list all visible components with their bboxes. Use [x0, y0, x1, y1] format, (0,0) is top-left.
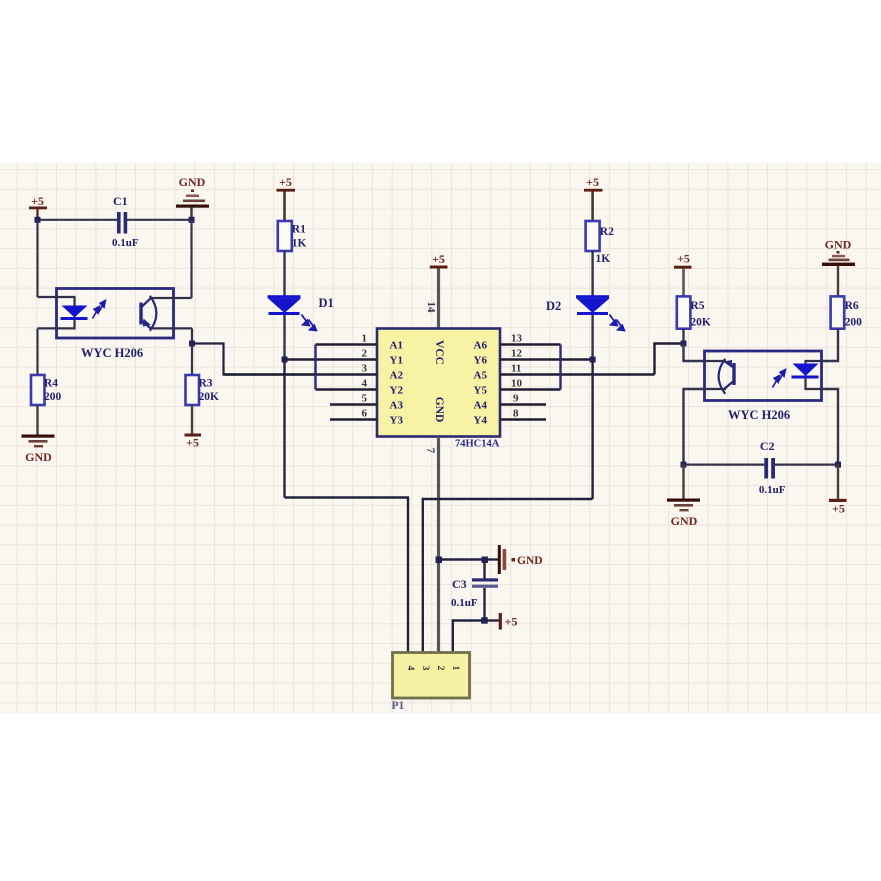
node junction C3 bottom — [481, 617, 488, 624]
svg-text:GND: GND — [671, 514, 698, 528]
optocoupler U-right WYC H206 box — [705, 351, 822, 422]
svg-text:VCC: VCC — [433, 340, 445, 365]
svg-text:10: 10 — [511, 378, 523, 390]
power +5 (below R3) — [185, 405, 202, 450]
svg-text:+5: +5 — [586, 175, 599, 189]
ground GND (bottom left) — [22, 435, 55, 465]
IC left pin stubs 1-4 — [224, 345, 378, 390]
resistor R1 — [278, 221, 307, 251]
svg-text:1: 1 — [362, 333, 368, 345]
svg-text:+5: +5 — [186, 436, 199, 450]
node junction D2/pin12 — [590, 357, 596, 363]
ground GND (top right, inverted stack) — [822, 238, 855, 297]
wire IC GND pin 7 down to P1 — [437, 437, 440, 653]
svg-text:4: 4 — [362, 378, 368, 390]
svg-text:GND: GND — [179, 175, 206, 189]
wire opto1 output to IC pin3 — [192, 344, 316, 375]
wire R5 to node — [682, 329, 684, 344]
svg-text:A1: A1 — [390, 340, 403, 352]
phototransistor inside opto2 — [719, 359, 736, 394]
power +5 (above R2) — [584, 175, 603, 221]
svg-text:11: 11 — [511, 363, 521, 375]
svg-text:20K: 20K — [690, 317, 711, 329]
wire opto2 transistor bottom pin — [705, 388, 727, 390]
resistor R3 — [186, 345, 220, 405]
power +5 (above R1) — [277, 175, 296, 221]
capacitor C1 — [112, 194, 139, 249]
resistor R2 — [586, 221, 615, 265]
LED inside opto1 — [61, 306, 88, 321]
wire pin11 to right opto input — [655, 344, 684, 375]
wire R2 to D2 — [591, 251, 593, 296]
svg-text:8: 8 — [513, 408, 519, 420]
svg-text:Y1: Y1 — [390, 355, 403, 367]
wire C3 row horizontal — [439, 558, 485, 560]
resistor R4 — [31, 375, 62, 405]
node junction C2 right — [835, 462, 841, 468]
svg-text:0.1uF: 0.1uF — [112, 237, 139, 249]
D2 light arrows — [610, 315, 625, 331]
wire down to +5 bottom — [837, 465, 839, 499]
IC right pin numbers — [511, 333, 523, 420]
wire left vertical to R4 — [36, 328, 38, 375]
ground GND (top left, inverted stack) — [176, 175, 209, 220]
node junction C3 top — [482, 557, 489, 564]
ground GND (middle, sideways) — [498, 545, 543, 574]
node junction C2 left — [681, 462, 687, 468]
power +5 (left, above C1 row) — [29, 194, 47, 220]
svg-text:GND: GND — [825, 238, 852, 252]
IC left bracket pins 1-4 — [314, 345, 316, 390]
wire bottom left horizontal to P1 — [285, 498, 409, 653]
svg-text:+5: +5 — [31, 194, 44, 208]
optocoupler U-left WYC H206 box — [57, 289, 174, 361]
IC right pin stubs 13-10 — [500, 345, 655, 390]
svg-text:5: 5 — [362, 393, 368, 405]
svg-text:C2: C2 — [760, 439, 775, 453]
capacitor C2 — [684, 439, 839, 496]
opto1 light arrows — [93, 301, 106, 319]
svg-text:9: 9 — [513, 393, 519, 405]
svg-text:R4: R4 — [44, 378, 58, 390]
wire node into opto2 transistor top — [684, 344, 705, 362]
svg-text:+5: +5 — [832, 502, 845, 516]
svg-text:12: 12 — [511, 348, 523, 360]
svg-text:2: 2 — [435, 666, 445, 671]
wire +5 branch down to P1 pin1 — [453, 621, 485, 653]
svg-text:0.1uF: 0.1uF — [759, 484, 786, 496]
P1 pin labels (rotated) — [405, 666, 460, 671]
svg-text:R3: R3 — [199, 378, 213, 390]
schematic background — [0, 163, 881, 713]
wire D1 node down to bottom row — [283, 360, 285, 498]
wire to GND mid — [485, 558, 499, 560]
LED inside opto2 — [792, 361, 822, 389]
node junction opto1 output — [189, 341, 195, 347]
svg-text:1K: 1K — [596, 253, 611, 265]
svg-text:WYC H206: WYC H206 — [81, 346, 143, 360]
svg-text:13: 13 — [511, 333, 523, 345]
svg-text:Y6: Y6 — [474, 355, 488, 367]
wire right vertical GND to opto collector — [190, 220, 192, 298]
IC right pin names — [474, 340, 488, 427]
LED D1 — [268, 295, 334, 315]
svg-text:GND: GND — [25, 450, 52, 464]
svg-text:6: 6 — [362, 408, 368, 420]
svg-text:14: 14 — [425, 302, 437, 314]
IC left pin stubs 5-6 — [330, 405, 377, 420]
svg-text:+5: +5 — [432, 252, 445, 266]
svg-text:3: 3 — [420, 666, 430, 671]
svg-text:D2: D2 — [546, 299, 561, 313]
wire R1 to D1 — [283, 251, 285, 296]
power +5 (above IC pin 14) — [430, 252, 448, 269]
ground GND (bottom right) — [667, 499, 700, 529]
wire emitter down to R3 node — [191, 328, 193, 345]
svg-text:Y3: Y3 — [390, 415, 404, 427]
IC left pin names — [390, 340, 404, 427]
wire C1 row horizontal right — [127, 219, 192, 221]
svg-text:Y5: Y5 — [474, 385, 488, 397]
svg-text:+5: +5 — [505, 615, 518, 629]
svg-text:1: 1 — [450, 666, 460, 671]
svg-text:WYC H206: WYC H206 — [728, 408, 790, 422]
svg-text:+5: +5 — [279, 175, 292, 189]
svg-text:C1: C1 — [113, 194, 128, 208]
connector P1 — [392, 653, 470, 713]
svg-text:R1: R1 — [292, 224, 306, 236]
svg-text:A4: A4 — [474, 400, 488, 412]
svg-text:P1: P1 — [392, 700, 405, 712]
svg-text:200: 200 — [44, 391, 62, 403]
svg-text:Y2: Y2 — [390, 385, 404, 397]
svg-text:A6: A6 — [474, 340, 488, 352]
svg-text:200: 200 — [845, 317, 863, 329]
wire VCC feed pin 14 — [437, 269, 440, 329]
capacitor C3 — [451, 560, 498, 621]
svg-text:1K: 1K — [292, 238, 307, 250]
wire opto1 collector exit — [150, 297, 192, 299]
svg-text:D1: D1 — [319, 296, 334, 310]
svg-text:R5: R5 — [690, 300, 704, 312]
power +5 (above R5) — [674, 252, 692, 297]
LED D2 — [546, 295, 610, 315]
resistor R6 — [831, 296, 863, 328]
node junction at GND/C1 row — [189, 217, 195, 223]
svg-text:A3: A3 — [390, 400, 404, 412]
node junction R5/pin11 — [681, 341, 687, 347]
svg-text:R6: R6 — [845, 300, 859, 312]
wire R6 into opto2 LED anode — [822, 329, 839, 361]
svg-text:3: 3 — [362, 363, 368, 375]
D1 light arrows — [302, 315, 317, 331]
svg-text:2: 2 — [362, 348, 368, 360]
svg-text:GND: GND — [517, 555, 543, 567]
power +5 (middle, sideways) — [499, 613, 518, 630]
wire R4 to ground — [36, 405, 38, 435]
IC right bracket pins 13-10 — [559, 345, 561, 390]
wire opto1 emitter exit — [150, 327, 192, 329]
opto2 light arrows — [773, 370, 786, 388]
svg-text:20K: 20K — [199, 391, 220, 403]
wire C1 row horizontal — [38, 219, 118, 221]
wire opto1 LED cathode exit — [38, 320, 75, 328]
wire left vertical +5 to opto LED anode — [36, 220, 38, 297]
svg-text:C3: C3 — [452, 577, 467, 591]
wire opto2 transistor top pin — [705, 360, 727, 362]
svg-text:A5: A5 — [474, 370, 488, 382]
phototransistor inside opto1 — [139, 296, 156, 331]
svg-text:7: 7 — [425, 448, 437, 454]
svg-text:GND: GND — [433, 397, 445, 423]
IC 74HC14A body — [377, 329, 500, 450]
svg-text:+5: +5 — [677, 252, 690, 266]
wire to +5 mid — [485, 619, 500, 621]
svg-text:0.1uF: 0.1uF — [451, 597, 478, 609]
wire bottom right horizontal to P1 — [423, 499, 593, 653]
svg-text:4: 4 — [405, 666, 415, 671]
wire down to GND bottom — [682, 465, 684, 499]
resistor R5 — [677, 296, 711, 328]
svg-text:R2: R2 — [600, 226, 614, 238]
node junction at +5/C1 row — [35, 217, 41, 223]
node junction D1/pin2 — [282, 357, 288, 363]
svg-text:Y4: Y4 — [474, 415, 488, 427]
svg-text:A2: A2 — [390, 370, 404, 382]
wire D2 cathode down to pin12 node — [591, 315, 593, 360]
svg-text:74HC14A: 74HC14A — [455, 439, 500, 450]
IC left pin numbers — [362, 333, 368, 420]
wire opto2 LED cathode down to C2 row — [822, 389, 839, 465]
IC right pin stubs 9-8 — [500, 405, 546, 420]
wire D1 cathode down to pin2 node — [283, 315, 285, 360]
power +5 (bottom right) — [829, 499, 847, 516]
wire D2 node down to bottom row — [591, 360, 593, 500]
wire opto2 collector down to C2 row — [684, 389, 705, 465]
node junction pin7/C3 row — [436, 557, 443, 564]
wire opto1 LED anode entry — [38, 297, 75, 306]
